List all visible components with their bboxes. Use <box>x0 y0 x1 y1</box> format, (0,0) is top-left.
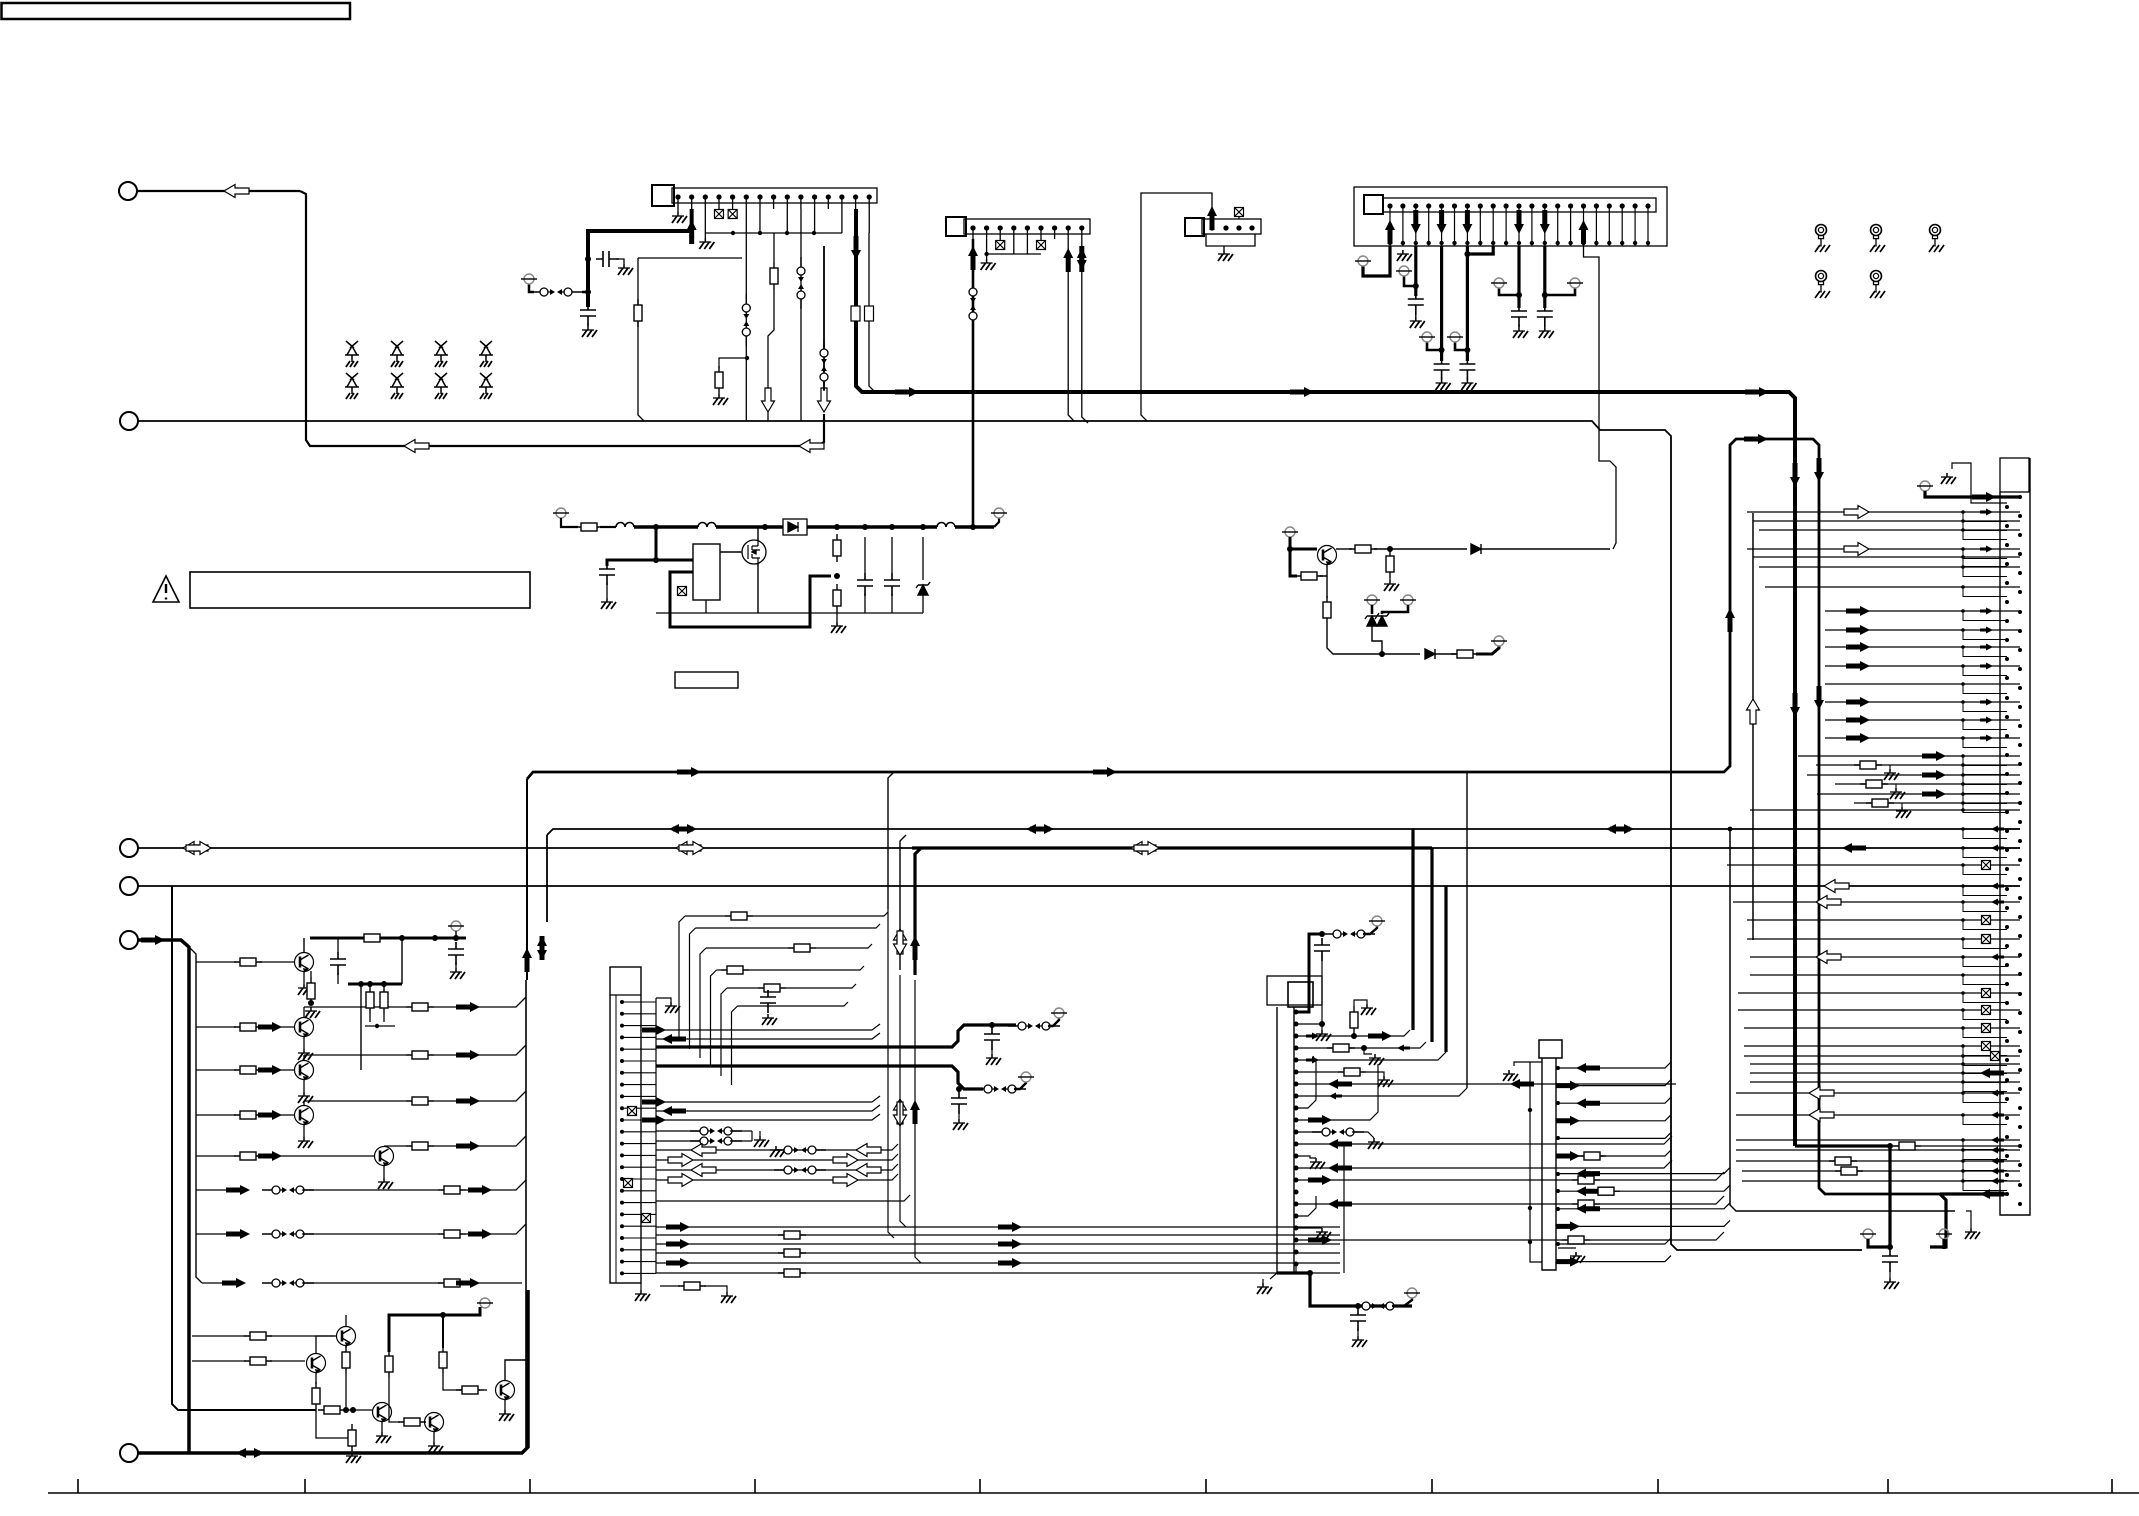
row wire <box>1750 956 1963 958</box>
surge protector <box>434 341 448 367</box>
row switch wire <box>466 1180 526 1190</box>
wire <box>1427 342 1442 350</box>
junction <box>1961 585 1965 589</box>
signal arrow <box>1207 206 1217 230</box>
signal arrow <box>1030 824 1054 834</box>
row wire <box>656 1195 910 1201</box>
signal arrow <box>818 388 831 412</box>
test point <box>1018 1072 1034 1082</box>
wire branch vertical <box>638 258 644 421</box>
ground <box>1570 1252 1585 1263</box>
test point <box>1404 1288 1420 1298</box>
power rail <box>561 518 578 527</box>
footer tick <box>1205 1479 1207 1493</box>
wire left gnd <box>1270 1273 1277 1279</box>
signal arrow <box>1437 210 1447 234</box>
footer tick <box>1431 1479 1433 1493</box>
inline connector <box>690 1137 742 1145</box>
wire P5 <box>138 940 189 1453</box>
signal arrow <box>1328 1139 1352 1149</box>
resistor <box>234 1111 262 1119</box>
branch pin wire <box>1963 684 2007 694</box>
emitter wire <box>303 971 305 984</box>
row wire <box>1750 1072 1963 1074</box>
wire to tp <box>994 518 999 527</box>
ground <box>1316 1030 1331 1041</box>
wire gnd stub <box>1514 1062 1530 1066</box>
signal arrow <box>687 220 697 244</box>
node rail <box>310 937 466 940</box>
crossed box <box>642 1214 651 1223</box>
fan wire <box>721 988 727 1076</box>
capacitor <box>580 303 596 326</box>
bus wire B6 right <box>1432 847 2020 849</box>
footer tick <box>529 1479 531 1493</box>
row wire <box>192 1360 246 1362</box>
row wire <box>1744 1055 1963 1057</box>
resistor <box>234 958 262 966</box>
terminal P2 <box>120 412 138 430</box>
junction <box>1355 1303 1361 1309</box>
signal arrow <box>1540 210 1550 234</box>
ground <box>450 968 465 979</box>
ground <box>298 1092 313 1103</box>
resistor <box>456 1386 484 1394</box>
signal arrow <box>1991 1158 2004 1165</box>
row wire <box>1817 793 1963 795</box>
connector J1 body <box>672 188 877 203</box>
ground <box>721 1292 736 1303</box>
branch pin wire <box>1963 1046 2007 1056</box>
connector J2 body <box>964 219 1090 234</box>
tap gnd wire <box>1882 765 1890 769</box>
thick wire <box>656 527 693 560</box>
connector J3 pins <box>1210 226 1254 230</box>
row wire <box>1560 1132 1671 1138</box>
row wire <box>730 1140 752 1142</box>
junction <box>1961 763 1965 767</box>
signal arrow <box>224 185 249 198</box>
thick bottom <box>1277 1273 1412 1306</box>
wire <box>958 1111 960 1119</box>
resistor <box>721 966 749 974</box>
junction <box>984 252 988 256</box>
signal arrow <box>1980 608 1993 615</box>
test point <box>1567 278 1583 288</box>
capacitor <box>599 562 615 585</box>
junction <box>1961 1148 1965 1152</box>
row wire <box>196 961 236 963</box>
wire c <box>891 593 893 613</box>
junction <box>1961 792 1965 796</box>
row wire <box>1560 1097 1671 1103</box>
pin wire <box>1298 1024 1322 1030</box>
inline connector <box>1312 1128 1364 1136</box>
resistor <box>715 366 723 394</box>
wire <box>986 254 988 259</box>
signal arrow <box>910 936 920 960</box>
footer tick <box>1887 1479 1889 1493</box>
signal arrow <box>240 1448 264 1458</box>
junction <box>812 231 816 235</box>
junction <box>1961 900 1965 904</box>
resistor <box>770 262 778 290</box>
emitter wire <box>381 1421 383 1432</box>
row wire <box>1600 1172 1724 1180</box>
signal arrow <box>1846 697 1870 707</box>
wire branch <box>638 257 742 259</box>
row pin wire <box>1963 828 2020 830</box>
thick wire J4 pin5 <box>1440 246 1443 361</box>
pin wire <box>677 209 679 212</box>
signal arrow <box>1610 824 1634 834</box>
pin wire <box>1238 217 1240 219</box>
ground <box>1884 769 1899 780</box>
row wire <box>302 1282 441 1284</box>
wire <box>705 600 707 613</box>
resistor <box>1835 1167 1863 1175</box>
ground <box>1368 1138 1383 1149</box>
signal arrow <box>1725 608 1735 632</box>
branch pin wire <box>1963 902 2007 912</box>
row switch wire <box>196 1233 228 1235</box>
row wire <box>1759 529 1963 531</box>
signal arrow <box>676 842 701 855</box>
signal arrow <box>1824 880 1849 893</box>
ground <box>1218 250 1233 261</box>
test point <box>553 508 569 518</box>
ground <box>1941 473 1956 484</box>
wire J4 pin16 <box>1584 246 1617 549</box>
test point <box>1051 1008 1067 1018</box>
collector stub <box>303 1055 305 1061</box>
row out wire <box>304 1054 406 1056</box>
signal arrow <box>1556 1116 1580 1126</box>
signal arrow <box>1991 1178 2004 1185</box>
row wire <box>1747 511 1963 513</box>
signal arrow <box>1063 248 1073 272</box>
thick link <box>1467 246 1493 254</box>
crossed box <box>728 210 737 219</box>
row wire <box>656 1154 898 1160</box>
junction <box>1319 931 1325 937</box>
right connector body <box>2000 458 2030 1215</box>
thick wire J4 pin1 <box>1363 246 1390 276</box>
fan wire <box>700 948 706 1058</box>
signal arrow <box>1093 767 1117 777</box>
regulator IC U1 <box>693 544 720 600</box>
junction <box>1413 283 1419 289</box>
signal arrow <box>1922 770 1946 780</box>
row wire <box>1738 992 1963 994</box>
signal arrow <box>258 1151 282 1161</box>
thick node stub <box>442 1315 444 1348</box>
row wire <box>656 1144 898 1150</box>
signal arrow <box>456 1141 480 1151</box>
row wire <box>1825 719 1963 721</box>
row wire <box>1298 1052 1446 1060</box>
row wire <box>196 1114 236 1116</box>
inline connector <box>820 339 828 391</box>
signal arrow <box>1816 951 1841 964</box>
row wire <box>656 1130 700 1132</box>
row wire <box>1600 1196 1724 1204</box>
junction <box>653 524 659 530</box>
junction <box>785 231 789 235</box>
signal arrow <box>226 1185 250 1195</box>
junction <box>1961 1062 1965 1066</box>
signal arrow <box>1991 1090 2004 1097</box>
capacitor <box>1434 357 1450 380</box>
junction <box>1961 782 1965 786</box>
terminal P6 <box>120 1444 138 1462</box>
signal arrow <box>1556 1081 1580 1091</box>
row wire <box>1298 1203 1572 1205</box>
signal arrow <box>1579 220 1589 244</box>
signal arrow <box>258 1065 282 1075</box>
branch wire <box>1466 772 1468 1088</box>
junction <box>1464 251 1470 257</box>
mounting hole <box>1815 225 1830 253</box>
wire z <box>922 537 924 580</box>
row pin wire <box>1963 919 2020 921</box>
resistor <box>634 299 642 327</box>
junction <box>889 524 895 530</box>
junction <box>1542 292 1548 298</box>
wire <box>345 1374 347 1410</box>
wire <box>1327 624 1420 654</box>
signal arrow <box>1991 1168 2004 1175</box>
wire <box>529 284 534 292</box>
row wire <box>1825 646 1963 648</box>
row wire <box>1825 737 1963 739</box>
wire c <box>864 593 866 613</box>
inline connector <box>1323 930 1375 938</box>
gnd wire <box>1966 1211 1971 1228</box>
row pin wire <box>1963 1081 2020 1083</box>
signal arrow <box>1462 210 1472 234</box>
row wire <box>1298 1056 1316 1108</box>
signal arrow <box>642 1025 666 1035</box>
IC connector body <box>610 967 641 1283</box>
signal arrow <box>1576 1098 1600 1108</box>
signal arrow <box>1328 1079 1352 1089</box>
signal arrow <box>691 1164 716 1177</box>
IC connector pins <box>620 1000 624 1275</box>
cap lead <box>1321 953 1323 1024</box>
row out wire <box>434 1091 526 1101</box>
branch pin wire <box>1963 1056 2007 1066</box>
junction <box>381 981 387 987</box>
resistor <box>1572 1176 1600 1184</box>
signal arrow <box>1385 220 1395 244</box>
junction <box>1961 519 1965 523</box>
ground <box>1257 1283 1272 1294</box>
title block <box>2 3 351 19</box>
row pin wire <box>1963 1072 2020 1074</box>
tap wire <box>1835 783 1963 785</box>
row wire <box>1590 1232 1724 1240</box>
resistor <box>1349 545 1377 553</box>
signal arrow <box>762 388 775 412</box>
signal arrow <box>1809 1109 1834 1122</box>
row wire <box>1807 774 1963 776</box>
fuse <box>575 523 603 531</box>
wire <box>1441 377 1443 379</box>
row wire <box>1825 665 1963 667</box>
fan wire h <box>738 1002 849 1006</box>
branch pin wire <box>1963 1171 2007 1181</box>
branch pin wire <box>1963 666 2007 676</box>
signal arrow <box>642 1097 666 1107</box>
thick wire J4 <box>1543 246 1546 308</box>
row pin wire <box>1963 737 2020 739</box>
resistor <box>833 534 841 562</box>
wire <box>1048 1018 1059 1026</box>
crossed box <box>628 1107 637 1116</box>
resistor <box>778 1269 806 1277</box>
terminal P5 <box>120 931 138 949</box>
bus wire B7 <box>138 885 2020 887</box>
inline connector <box>262 1279 314 1287</box>
junction <box>1961 510 1965 514</box>
fan wire <box>711 970 717 1067</box>
connector J4 outer <box>1354 187 1667 246</box>
test point <box>1396 266 1412 276</box>
branch wire thick <box>1430 848 1433 1042</box>
fan wire h <box>717 969 722 971</box>
row pin wire <box>1963 1139 2020 1141</box>
junction <box>970 524 976 530</box>
resistor <box>758 984 786 992</box>
signal arrow <box>1846 733 1870 743</box>
ferrite bead <box>865 306 874 321</box>
row wire <box>1560 1150 1671 1156</box>
branch pin wire <box>1963 557 2007 567</box>
resistor <box>778 1249 806 1257</box>
junction <box>585 289 591 295</box>
junction <box>1516 292 1522 298</box>
branch pin wire <box>1963 1028 2007 1038</box>
signal arrow <box>1510 1079 1534 1089</box>
junction <box>1961 1179 1965 1183</box>
signal arrow <box>1131 842 1156 855</box>
collector wire <box>316 1336 337 1354</box>
branch pin wire <box>1963 784 2007 794</box>
thick feedback wire <box>670 572 831 627</box>
junction <box>1961 1071 1965 1075</box>
junction <box>1961 1026 1965 1030</box>
inductor <box>698 523 716 528</box>
wire <box>1354 1000 1367 1006</box>
signal arrow <box>666 1239 690 1249</box>
wire <box>455 962 457 968</box>
junction <box>1961 1080 1965 1084</box>
wire <box>345 1345 347 1348</box>
signal arrow <box>1308 1235 1332 1245</box>
signal arrow <box>679 842 704 855</box>
branch pin wire <box>1963 587 2007 597</box>
resistor <box>234 1152 262 1160</box>
row pin wire <box>1963 1180 2020 1182</box>
pin wire <box>1013 239 1015 254</box>
row wire <box>1825 610 1963 612</box>
resistor <box>1451 650 1479 658</box>
ground <box>601 598 616 609</box>
wire <box>1352 1132 1374 1138</box>
row wire <box>1736 1160 1963 1162</box>
right connector pin dots <box>2005 495 2022 1206</box>
junction <box>1728 827 1733 832</box>
signal arrow <box>851 236 861 260</box>
row wire <box>656 1114 880 1120</box>
branch wire thick <box>1444 886 1447 1052</box>
signal arrow <box>1411 210 1421 234</box>
zener diode <box>916 582 930 595</box>
connector J3 key <box>1185 218 1204 236</box>
ground <box>754 1136 769 1147</box>
row out wire <box>434 997 526 1007</box>
row wire <box>656 1140 700 1142</box>
row wire <box>656 1024 880 1030</box>
inductor <box>616 523 634 528</box>
test point <box>1364 595 1380 605</box>
thick bus start <box>856 209 1795 1146</box>
transistor <box>295 1106 314 1126</box>
connector J4 pins <box>1388 204 1650 246</box>
signal arrow <box>456 1278 480 1288</box>
signal arrow <box>1846 715 1870 725</box>
mounting hole <box>1929 225 1944 253</box>
wire <box>836 533 838 535</box>
diode <box>1471 544 1481 554</box>
signal arrow <box>1991 954 2004 961</box>
pin wire <box>1040 239 1042 241</box>
wire <box>1518 324 1520 327</box>
signal arrow <box>666 1258 690 1268</box>
test point <box>991 508 1007 518</box>
ground <box>1369 1054 1384 1065</box>
wire <box>484 1389 487 1391</box>
branch wire thick <box>1411 829 1414 1030</box>
capacitor <box>1314 938 1330 961</box>
wire <box>1558 1247 1576 1249</box>
row wire <box>1298 1239 1562 1241</box>
signal arrow <box>968 246 978 270</box>
signal arrow <box>1328 1199 1352 1209</box>
row wire <box>259 1069 294 1071</box>
junction <box>432 935 438 941</box>
signal arrow <box>236 1448 260 1458</box>
fan wire h <box>685 915 725 917</box>
ground <box>346 1452 361 1463</box>
ground <box>1352 1336 1367 1347</box>
connector J5 key <box>1288 982 1313 1007</box>
transistor <box>373 1403 392 1423</box>
resistor <box>1350 1006 1358 1034</box>
thick wire J4 pin7 <box>1466 246 1469 361</box>
row pin wire <box>1963 1055 2020 1057</box>
junction <box>653 557 659 563</box>
row wire <box>656 1262 1340 1264</box>
row pin wire <box>1963 1160 2020 1162</box>
signal arrow <box>895 387 919 397</box>
thick supply wire from J1 <box>588 209 692 307</box>
signal arrow <box>537 936 547 960</box>
wire <box>388 1378 390 1403</box>
junction <box>1961 645 1965 649</box>
wire <box>343 1409 373 1411</box>
